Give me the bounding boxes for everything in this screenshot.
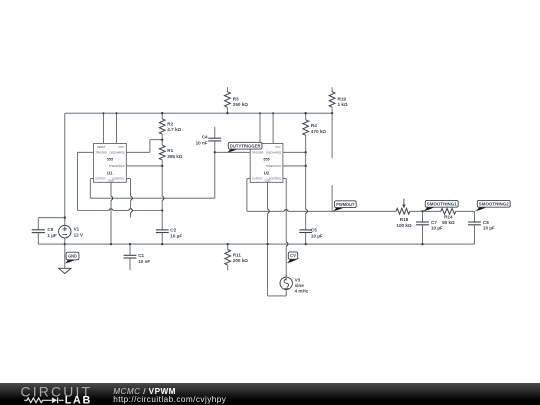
node R1-threshold junction <box>161 165 163 167</box>
node U1 VCC-rail junction <box>116 112 118 114</box>
CircuitLab logo resistor-diode line <box>24 398 63 403</box>
svg-text:C2: C2 <box>170 228 176 233</box>
resistor R11 <box>225 244 231 270</box>
svg-text:250 kΩ: 250 kΩ <box>233 102 248 107</box>
svg-text:4 mHz: 4 mHz <box>295 288 309 293</box>
node trigger-C2 junction <box>161 209 163 211</box>
svg-text:V3: V3 <box>295 278 301 283</box>
wire U1 THRESHOLD net <box>126 165 162 167</box>
node smoothing1 junction <box>421 210 423 212</box>
svg-text:VCC: VCC <box>275 145 281 149</box>
capacitor C1 <box>124 244 137 270</box>
label V1 value <box>74 227 84 238</box>
wire U2 RESET stub <box>259 113 261 143</box>
svg-text:LAB: LAB <box>64 395 91 405</box>
svg-text:GND: GND <box>68 254 77 259</box>
wire U1 OUTPUT net <box>90 179 215 199</box>
svg-text:OUTPUT: OUTPUT <box>95 177 106 181</box>
node R3-rail junction <box>226 112 228 114</box>
capacitor C5 <box>299 230 312 244</box>
svg-text:1 kΩ: 1 kΩ <box>338 102 348 107</box>
voltage source V1 <box>59 225 71 237</box>
wire U2 CONTROL net <box>283 179 286 278</box>
resistor R2 <box>159 119 165 134</box>
label C8 value <box>483 220 495 231</box>
node R2-R1-discharge junction <box>161 139 163 141</box>
resistor R14 <box>441 208 456 214</box>
svg-text:R4: R4 <box>311 123 317 128</box>
node R4-threshold junction <box>305 165 307 167</box>
svg-text:10 µF: 10 µF <box>431 226 443 231</box>
wire U1 VCC stub <box>116 113 118 143</box>
wire PWMOUT rail <box>247 210 396 212</box>
wire hop control-output <box>131 196 133 200</box>
label R2 value <box>167 121 181 132</box>
wire GND bottom rail <box>38 243 474 245</box>
wire U2 TRIGGER net <box>215 151 250 153</box>
wiper arrow R18 <box>402 199 406 209</box>
svg-text:CV: CV <box>290 253 296 258</box>
node V1-C9 junction <box>64 217 66 219</box>
svg-text:C1: C1 <box>138 253 144 258</box>
svg-text:10 nF: 10 nF <box>138 259 150 264</box>
node C4-trigger junction <box>214 151 216 153</box>
svg-text:CONTROL: CONTROL <box>112 177 125 181</box>
op-amp U2 555 timer <box>250 143 283 182</box>
wire R19 lower stub <box>331 113 333 158</box>
wire PWMOUT riser stub <box>331 185 333 211</box>
wire hop gnd2-pwmrail <box>268 209 270 213</box>
svg-text:C9: C9 <box>47 227 53 232</box>
label C7 value <box>431 220 443 231</box>
svg-text:10 µF: 10 µF <box>170 233 182 238</box>
node R4-rail junction <box>305 112 307 114</box>
wire U1 DISCHARGE net <box>126 140 162 153</box>
wire C9 top branch <box>38 218 65 230</box>
node R2-rail junction <box>161 112 163 114</box>
node C5-rail junction <box>305 243 307 245</box>
svg-text:555: 555 <box>107 158 113 162</box>
label R4 value <box>311 123 326 134</box>
svg-text:R3: R3 <box>233 96 239 101</box>
svg-text:R14: R14 <box>444 214 453 219</box>
wire hop control-trigger2 <box>131 208 133 212</box>
svg-text:DUTYTRIGGER: DUTYTRIGGER <box>230 143 262 148</box>
svg-text:200 kΩ: 200 kΩ <box>233 258 248 263</box>
node R4-discharge junction <box>305 151 307 153</box>
wire R2 top lead <box>161 113 163 119</box>
wire U2 GND lead <box>267 182 269 244</box>
svg-text:sine: sine <box>295 283 305 288</box>
wire V3 bottom loop <box>268 244 287 296</box>
label R3 value <box>233 96 248 107</box>
svg-text:THRESHOLD: THRESHOLD <box>266 164 282 168</box>
svg-text:DISCHARGE: DISCHARGE <box>266 150 281 154</box>
svg-text:555: 555 <box>263 158 269 162</box>
svg-text:OUTPUT: OUTPUT <box>252 177 263 181</box>
wire R4-C5 link <box>305 152 307 230</box>
wire hop c5-pwmrail <box>306 209 308 213</box>
svg-text:10 nF: 10 nF <box>196 140 208 145</box>
wire R1 bottom lead <box>161 160 163 211</box>
resistor R4 <box>303 113 309 152</box>
wire hop pwmrail-cv <box>284 210 288 212</box>
node C1-rail junction <box>129 243 131 245</box>
label C2 value <box>170 228 182 239</box>
wire R14-C8 link <box>456 210 475 212</box>
svg-text:R1: R1 <box>167 148 173 153</box>
svg-text:SMOOTHING2: SMOOTHING2 <box>479 201 510 206</box>
svg-text:VCC: VCC <box>119 145 125 149</box>
svg-text:CONTROL: CONTROL <box>269 177 282 181</box>
node R19-rail junction <box>331 112 333 114</box>
label C1 value <box>138 253 150 264</box>
svg-text:R2: R2 <box>167 121 173 126</box>
label R19 value <box>338 96 348 107</box>
wire hop r1-output <box>162 196 164 200</box>
svg-text:50 kΩ: 50 kΩ <box>442 220 455 225</box>
wire R18-node link <box>410 210 441 212</box>
wire hop trigger-control <box>128 209 132 211</box>
svg-text:RESET: RESET <box>97 145 106 149</box>
svg-text:C4: C4 <box>202 135 208 140</box>
wire V1 bottom lead <box>64 238 66 244</box>
label V3 value <box>295 278 309 294</box>
node C2-rail junction <box>161 243 163 245</box>
svg-text:TRIGGER: TRIGGER <box>95 150 107 154</box>
svg-text:470 kΩ: 470 kΩ <box>311 129 326 134</box>
svg-text:C8: C8 <box>483 220 489 225</box>
node C7-rail junction <box>421 243 423 245</box>
capacitor C7 <box>416 211 429 244</box>
label R14 value <box>442 214 455 225</box>
flag GND <box>65 252 79 263</box>
capacitor C4 <box>208 127 221 153</box>
node U1 RESET-rail junction <box>102 112 104 114</box>
resistor R19 <box>329 87 335 113</box>
svg-text:100 kΩ: 100 kΩ <box>396 223 411 228</box>
potentiometer R18 <box>396 208 410 214</box>
svg-text:U1: U1 <box>107 170 113 175</box>
wire C4 riser from U1 output <box>214 152 216 198</box>
capacitor C8 <box>468 211 481 244</box>
wire R2-R1 link <box>161 134 163 145</box>
svg-text:10 µF: 10 µF <box>311 233 323 238</box>
wire U1 TRIGGER net <box>77 152 162 210</box>
svg-text:THRESHOLD: THRESHOLD <box>109 164 125 168</box>
svg-text:1 µF: 1 µF <box>47 233 56 238</box>
wire VCC top rail <box>65 112 332 114</box>
svg-text:C5: C5 <box>311 228 317 233</box>
label C9 value <box>47 227 56 238</box>
flag CV <box>286 252 299 263</box>
label R11 value <box>233 252 248 263</box>
ground symbol <box>59 268 71 273</box>
wire U1 RESET stub <box>102 113 104 143</box>
node U2 GND-rail junction <box>266 243 268 245</box>
flag PWMOUT <box>332 201 356 211</box>
svg-text:10 µF: 10 µF <box>483 226 495 231</box>
svg-text:V1: V1 <box>74 227 80 232</box>
capacitor C2 <box>156 211 169 245</box>
node U2 VCC-rail junction <box>272 112 274 114</box>
wire U2 THRESHOLD net <box>283 165 306 167</box>
wire hop control2-gndrail <box>286 242 288 246</box>
resistor R1 <box>159 145 165 160</box>
svg-text:R11: R11 <box>233 252 242 257</box>
svg-text:R19: R19 <box>338 96 347 101</box>
label R1 value <box>167 148 182 159</box>
node R11-rail junction <box>227 243 229 245</box>
flag DUTYTRIGGER <box>227 142 262 152</box>
CircuitLab logo diode <box>52 397 57 403</box>
wire GND stub <box>64 244 66 268</box>
wire U2 DISCHARGE net <box>283 151 306 153</box>
svg-text:U2: U2 <box>264 170 270 175</box>
wire VCC riser from V1 <box>64 113 66 225</box>
label C4 value <box>196 135 208 146</box>
flag SMOOTHING2 <box>475 200 511 211</box>
op-amp U1 555 timer <box>94 143 127 182</box>
svg-text:12 V: 12 V <box>74 232 84 237</box>
node V1-rail junction <box>64 243 66 245</box>
svg-text:4.7 kΩ: 4.7 kΩ <box>167 127 181 132</box>
label R18 value <box>396 217 411 228</box>
svg-text:SMOOTHING1: SMOOTHING1 <box>427 201 458 206</box>
svg-text:DISCHARGE: DISCHARGE <box>110 150 125 154</box>
svg-text:C7: C7 <box>431 220 437 225</box>
wire hop trigger-gnd <box>109 209 113 211</box>
wire C9 bottom lead <box>37 233 39 245</box>
wire U2 OUTPUT net <box>247 179 250 212</box>
capacitor C9 <box>32 230 45 233</box>
flag SMOOTHING1 <box>423 200 459 211</box>
resistor R3 <box>225 87 231 113</box>
svg-text:R18: R18 <box>400 217 409 222</box>
wire U1 GND lead <box>110 182 112 244</box>
wire U2 VCC stub <box>272 113 274 143</box>
node U2 RESET-rail junction <box>259 112 261 114</box>
svg-text:TRIGGER: TRIGGER <box>252 150 264 154</box>
wire hop gnd-output <box>111 196 113 200</box>
svg-text:PWMOUT: PWMOUT <box>336 202 354 207</box>
voltage source V3 <box>280 277 292 289</box>
label C5 value <box>311 228 323 239</box>
node U1 GND-rail junction <box>110 243 112 245</box>
wire U1 CONTROL stub <box>126 179 130 218</box>
svg-text:395 kΩ: 395 kΩ <box>167 154 182 159</box>
